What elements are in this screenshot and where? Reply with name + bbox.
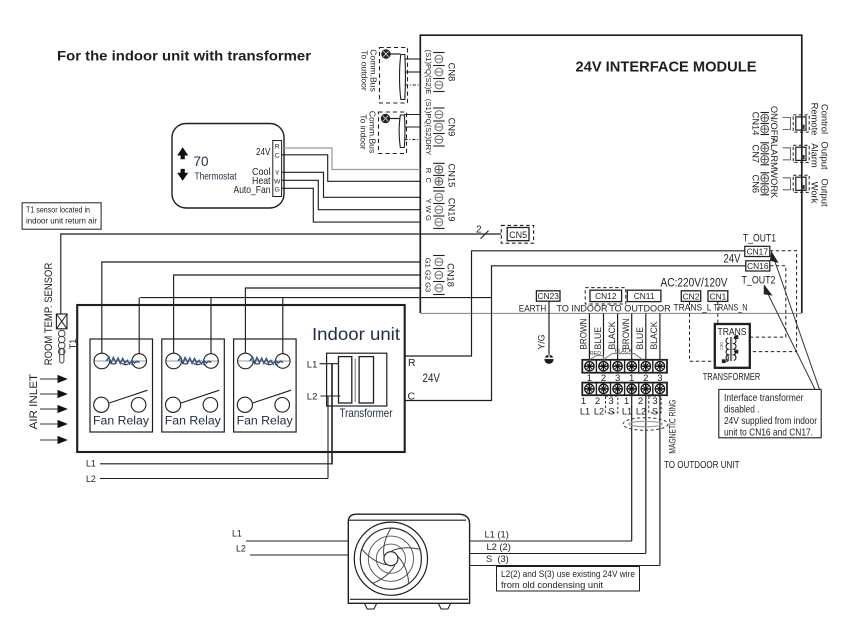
svg-text:Indoor unit: Indoor unit	[312, 324, 400, 344]
svg-text:Y W G: Y W G	[424, 199, 433, 221]
interface transformer TRANS	[715, 324, 750, 368]
fan relay 2	[162, 339, 225, 432]
terminal strip row 2	[582, 383, 667, 396]
svg-text:CN6: CN6	[751, 174, 761, 193]
svg-text:Alarm: Alarm	[810, 143, 821, 168]
wire relay2 coil common	[210, 298, 212, 354]
wire black 3	[617, 313, 619, 359]
svg-text:BLACK: BLACK	[649, 322, 659, 350]
svg-text:Fan Relay: Fan Relay	[165, 413, 222, 427]
svg-text:L1: L1	[307, 359, 318, 370]
wire L2 into transformer	[321, 395, 341, 397]
wire L1 bus	[100, 463, 332, 465]
svg-text:TO INDOOR: TO INDOOR	[557, 303, 608, 314]
alarm output label	[810, 141, 831, 170]
air inlet arrow 3	[40, 406, 67, 413]
svg-text:230: 230	[719, 342, 724, 350]
svg-text:BLUE: BLUE	[635, 327, 645, 350]
connector CN6 work	[751, 169, 809, 199]
wire L2 bus	[100, 478, 328, 480]
wire strip to outdoor L1	[631, 395, 633, 541]
svg-text:C: C	[275, 152, 280, 159]
wire T1 sensor to CN5	[61, 234, 501, 314]
svg-text:For the indoor unit with trans: For the indoor unit with transformer	[57, 48, 312, 64]
svg-text:24V: 24V	[724, 251, 741, 265]
svg-text:Remote: Remote	[810, 103, 821, 136]
wire G2 relay2 to CN18	[174, 275, 421, 353]
wire L1 drop	[331, 364, 333, 465]
svg-text:unit to CN16 and CN17.: unit to CN16 and CN17.	[724, 428, 813, 439]
connector CN19	[433, 190, 444, 192]
wire C indoor unit to CN16	[405, 266, 746, 401]
wire blue 5	[645, 313, 647, 359]
svg-text:70: 70	[194, 154, 209, 169]
svg-text:Thermostat: Thermostat	[195, 172, 237, 183]
jumper red	[590, 356, 604, 360]
svg-text:disabled .: disabled .	[724, 405, 760, 416]
indoor unit box	[77, 305, 405, 452]
to-outdoor comm bus plug	[380, 48, 421, 104]
jumper black	[604, 354, 643, 360]
svg-text:BROWN: BROWN	[621, 319, 631, 350]
svg-text:L1: L1	[232, 529, 242, 539]
svg-text:TO OUTDOOR UNIT: TO OUTDOOR UNIT	[664, 460, 740, 471]
svg-text:CN2: CN2	[683, 291, 700, 301]
wire relay1 coil common	[138, 298, 140, 354]
indoor transformer	[327, 353, 387, 406]
svg-text:TRANS_N: TRANS_N	[714, 302, 748, 313]
wire R indoor unit to CN17	[405, 251, 745, 356]
terminal strip lower numbers	[581, 396, 658, 407]
wire R thermostat to CN15	[282, 148, 421, 170]
svg-text:CN23: CN23	[537, 291, 559, 301]
room temp sensor T1	[56, 314, 67, 363]
to-outdoor comm bus label	[360, 49, 379, 92]
wire L2 drop	[327, 396, 329, 479]
svg-text:W: W	[274, 178, 281, 185]
wire Y thermostat to CN19	[282, 172, 421, 197]
svg-text:from old condensing unit: from old condensing unit	[501, 580, 603, 590]
wire outdoor L2	[470, 553, 646, 555]
svg-text:L2(2) and S(3) use existing 24: L2(2) and S(3) use existing 24V wire	[501, 569, 635, 579]
connector CN18	[433, 255, 444, 257]
svg-text:24V: 24V	[423, 371, 441, 385]
svg-text:L2: L2	[86, 474, 96, 484]
fan relay 3	[234, 339, 297, 432]
svg-text:Fan Relay: Fan Relay	[93, 413, 150, 427]
fan relay 1	[90, 339, 153, 432]
connector CN2	[681, 291, 700, 302]
svg-text:BLACK: BLACK	[607, 322, 617, 350]
svg-text:C: C	[408, 391, 416, 403]
svg-text:(S1)PQ(S2)DRY: (S1)PQ(S2)DRY	[424, 99, 433, 156]
note existing 24V wire	[497, 567, 640, 592]
wire L1 into transformer	[320, 363, 339, 365]
connector CN8	[433, 52, 444, 54]
svg-text:BLACK: BLACK	[615, 348, 633, 354]
svg-text:L2: L2	[307, 391, 318, 402]
terminal strip numbers	[587, 373, 663, 384]
svg-text:G: G	[275, 186, 280, 193]
wire W thermostat to CN19	[282, 180, 421, 209]
arrow note to CN17	[771, 252, 820, 389]
connector CN1	[708, 291, 728, 302]
connector CN11	[627, 290, 661, 301]
arrow note to CN16	[764, 286, 815, 390]
svg-text:Interface transformer: Interface transformer	[724, 393, 804, 404]
dashed wire CN1 to transformer	[717, 302, 719, 325]
24V interface module box	[420, 35, 802, 313]
svg-text:To outdoor: To outdoor	[360, 50, 370, 91]
wire strip to outdoor S	[659, 395, 661, 565]
connector CN12	[585, 288, 626, 304]
air inlet arrow 2	[40, 391, 67, 398]
svg-text:indoor unit return air: indoor unit return air	[26, 216, 97, 226]
module bottom edge	[420, 312, 802, 314]
svg-text:TO OUTDOOR: TO OUTDOOR	[609, 303, 671, 314]
svg-text:CN15: CN15	[447, 164, 457, 188]
svg-text:Y/G: Y/G	[537, 334, 547, 349]
svg-text:L2: L2	[236, 544, 246, 554]
svg-text:S: S	[608, 407, 614, 417]
wire G thermostat to CN19	[282, 188, 421, 222]
connector CN17	[745, 246, 770, 256]
svg-text:(S1)PQ(S2)E: (S1)PQ(S2)E	[424, 50, 433, 95]
svg-text:R: R	[275, 144, 280, 151]
dashed wire CN17 to transformer	[750, 251, 797, 352]
air inlet arrow 1	[40, 376, 67, 383]
svg-text:TRANSFORMER: TRANSFORMER	[703, 372, 761, 383]
svg-text:CN14: CN14	[751, 112, 761, 136]
svg-text:L2: L2	[636, 407, 646, 417]
work output label	[810, 178, 831, 207]
svg-text:L2: L2	[594, 407, 604, 417]
svg-text:Work: Work	[810, 182, 821, 204]
connector CN7 alarm	[751, 138, 809, 170]
magnetic ring	[623, 418, 668, 431]
remote control label	[810, 103, 831, 136]
svg-text:L1: L1	[622, 407, 632, 417]
svg-text:To indoor: To indoor	[359, 114, 369, 149]
bus width slash 2	[476, 225, 489, 239]
connector CN14 remote on/off	[751, 106, 809, 141]
svg-text:Y: Y	[275, 170, 280, 177]
svg-text:ON/OFF: ON/OFF	[769, 106, 779, 141]
svg-text:Transformer: Transformer	[340, 406, 393, 420]
air inlet arrow 5	[40, 437, 67, 444]
earth terminal symbol	[544, 355, 553, 364]
svg-text:24V INTERFACE MODULE: 24V INTERFACE MODULE	[576, 60, 757, 76]
svg-text:TRANS: TRANS	[718, 327, 747, 338]
svg-text:CN5: CN5	[509, 230, 527, 240]
wire G1 relay1 to CN18	[102, 262, 421, 353]
svg-text:Output: Output	[820, 141, 831, 170]
svg-text:CN11: CN11	[634, 291, 655, 301]
wire earth Y/G	[548, 301, 550, 355]
connector CN9	[433, 107, 444, 109]
svg-text:CN19: CN19	[447, 198, 457, 222]
terminal strip row 1	[582, 360, 667, 373]
svg-text:S: S	[652, 407, 658, 417]
outdoor fan	[354, 522, 427, 595]
svg-text:G1 G2 G3: G1 G2 G3	[423, 258, 432, 293]
to-indoor comm bus label	[359, 111, 378, 154]
svg-text:CN12: CN12	[595, 291, 617, 301]
svg-text:L2 (2): L2 (2)	[487, 542, 511, 552]
svg-text:R C: R C	[424, 168, 433, 184]
svg-text:24V supplied from indoor: 24V supplied from indoor	[724, 416, 818, 427]
svg-text:L1: L1	[580, 407, 590, 417]
svg-text:TRANS_L: TRANS_L	[674, 302, 712, 313]
wire black 6	[659, 313, 661, 359]
connector CN5	[501, 225, 533, 243]
wire brown 4	[631, 313, 633, 359]
svg-text:CN9: CN9	[447, 118, 457, 137]
connector CN23	[536, 291, 560, 301]
svg-text:T_OUT2: T_OUT2	[742, 275, 776, 287]
svg-text:MAGNETIC RING: MAGNETIC RING	[668, 400, 678, 454]
svg-text:ROOM TEMP. SENSOR: ROOM TEMP. SENSOR	[43, 263, 55, 366]
connector CN15	[433, 162, 444, 164]
air inlet arrow 4	[40, 421, 67, 428]
note interface transformer disabled	[719, 389, 821, 438]
svg-text:RED: RED	[590, 351, 601, 357]
svg-text:Comm.Bus: Comm.Bus	[369, 49, 379, 92]
dashed wire CN16 to transformer	[750, 266, 786, 337]
wire L2 to outdoor unit	[250, 554, 348, 556]
svg-text:R: R	[408, 357, 416, 369]
svg-text:Output: Output	[820, 178, 831, 207]
svg-text:Control: Control	[820, 104, 831, 134]
svg-text:L1: L1	[86, 459, 96, 469]
svg-text:Auto_Fan: Auto_Fan	[234, 185, 271, 196]
svg-text:AIR INLET: AIR INLET	[28, 373, 40, 429]
svg-text:24V: 24V	[256, 147, 271, 158]
svg-text:Comm.Bus: Comm.Bus	[368, 111, 378, 154]
svg-text:T_OUT1: T_OUT1	[743, 233, 776, 245]
wire C thermostat to CN15	[282, 155, 421, 182]
thermostat	[172, 124, 284, 209]
svg-text:CN7: CN7	[751, 144, 761, 163]
terminal strip wire labels	[580, 396, 661, 417]
svg-text:WORK: WORK	[769, 169, 779, 199]
svg-text:BLUE: BLUE	[593, 327, 603, 350]
wire strip to outdoor L2	[645, 395, 647, 553]
wire blue 2	[603, 313, 605, 359]
svg-text:EARTH: EARTH	[519, 303, 547, 314]
outdoor unit	[348, 514, 469, 609]
svg-text:CN16: CN16	[747, 261, 769, 271]
svg-text:AC:220V/120V: AC:220V/120V	[661, 278, 728, 290]
svg-text:S (3): S (3)	[486, 554, 509, 564]
svg-text:T1 sensor located in: T1 sensor located in	[26, 205, 90, 215]
dashed wire CN2 to transformer	[690, 302, 715, 362]
wire brown 1	[588, 313, 590, 359]
svg-text:2: 2	[476, 225, 482, 236]
to-indoor comm bus plug	[379, 112, 421, 154]
note T1 sensor location	[22, 203, 101, 229]
wire G3 relay3 to CN18	[245, 288, 420, 353]
wire relay3 coil common	[282, 298, 284, 354]
svg-text:CN1: CN1	[710, 291, 727, 301]
svg-text:Fan Relay: Fan Relay	[237, 413, 294, 427]
wire outdoor L1	[470, 540, 632, 542]
svg-text:CN17: CN17	[747, 247, 769, 257]
svg-text:ALARM: ALARM	[769, 138, 779, 170]
svg-text:L1 (1): L1 (1)	[485, 530, 509, 540]
wire outdoor S	[470, 565, 660, 567]
connector CN16	[746, 261, 770, 271]
svg-text:CN8: CN8	[447, 63, 457, 82]
svg-text:CN18: CN18	[446, 263, 456, 287]
svg-text:BROWN: BROWN	[579, 319, 589, 350]
wire L1 to outdoor unit	[246, 540, 348, 542]
wire relay common to C	[140, 297, 491, 299]
